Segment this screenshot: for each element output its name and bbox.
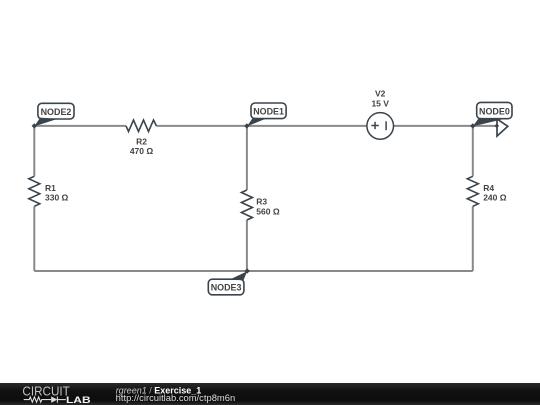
svg-text:V2: V2 [375,89,386,99]
svg-text:NODE2: NODE2 [41,107,72,117]
svg-text:R3: R3 [256,197,267,207]
svg-text:LAB: LAB [66,395,91,405]
svg-text:240 Ω: 240 Ω [483,193,507,203]
svg-text:R1: R1 [45,183,56,193]
svg-text:R4: R4 [483,183,494,193]
svg-text:NODE0: NODE0 [479,106,510,116]
svg-text:R2: R2 [136,136,147,146]
svg-text:15 V: 15 V [371,98,389,108]
svg-text:NODE1: NODE1 [253,107,284,117]
svg-text:http://circuitlab.com/ctp8m6n: http://circuitlab.com/ctp8m6n [116,393,235,403]
svg-text:330 Ω: 330 Ω [45,193,69,203]
svg-text:470 Ω: 470 Ω [130,146,154,156]
svg-text:560 Ω: 560 Ω [256,206,280,216]
svg-text:CIRCUIT: CIRCUIT [22,383,69,398]
svg-text:NODE3: NODE3 [211,283,242,293]
